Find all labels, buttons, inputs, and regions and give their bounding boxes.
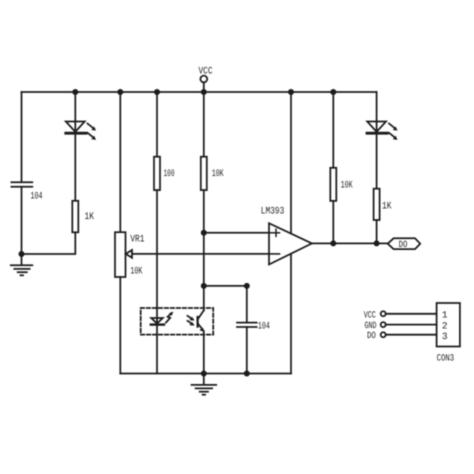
wire: op-amp V- to ground rail xyxy=(290,248,292,374)
svg-text:10K: 10K xyxy=(212,169,224,180)
resistor R3 10K xyxy=(201,157,224,190)
svg-text:100: 100 xyxy=(164,169,175,180)
svg-text:104: 104 xyxy=(258,321,270,332)
svg-text:VR1: VR1 xyxy=(130,235,144,246)
phototransistor Q1 xyxy=(188,310,205,332)
svg-text:VCC: VCC xyxy=(199,67,213,78)
LED D1 xyxy=(66,122,96,140)
capacitor C1 xyxy=(11,182,42,202)
resistor R5 1K xyxy=(374,189,392,220)
wire: rail to R3 xyxy=(203,92,205,157)
junction: collector / C2 node xyxy=(201,283,207,289)
wire: bottom ground rail xyxy=(120,373,291,375)
junction: rail / LED D1 xyxy=(72,89,78,95)
pin DO xyxy=(367,330,437,341)
opto LED D3 xyxy=(151,312,173,325)
wire: rail to VR1 xyxy=(119,92,121,232)
resistor R1 1K xyxy=(72,201,94,233)
capacitor C2 xyxy=(237,321,270,332)
wire: R4 to output xyxy=(332,201,334,244)
svg-text:10K: 10K xyxy=(130,266,142,277)
junction: output / R4 xyxy=(330,240,336,246)
junction: ground rail / emitter xyxy=(201,371,207,377)
wire: node down to phototransistor collector xyxy=(203,286,205,311)
junction: rail / VR1 xyxy=(117,89,123,95)
wire: non-inverting input xyxy=(204,232,269,234)
ground symbol center xyxy=(192,374,217,395)
wire: rail down to C1 xyxy=(21,92,23,182)
svg-text:1K: 1K xyxy=(85,212,95,223)
LED D2 xyxy=(367,122,398,140)
svg-text:DO: DO xyxy=(399,239,408,250)
wire: R5 to output xyxy=(376,220,378,243)
power VCC terminal xyxy=(199,67,213,93)
junction: rail / op-amp V+ xyxy=(288,89,294,95)
wire: VCC top rail xyxy=(22,91,377,93)
terminal DO tag xyxy=(388,238,421,250)
wire: R2 to opto LED xyxy=(156,190,158,325)
wire: emitter to ground rail xyxy=(203,331,205,373)
op-amp U1 LM393 xyxy=(261,207,312,265)
wire: D2 to R5 xyxy=(376,133,378,189)
wire: rail to LED D2 xyxy=(376,92,378,133)
resistor R2 100 xyxy=(154,157,175,190)
wire: R1 bottom to ground node xyxy=(22,232,76,254)
wire: rail to R2 xyxy=(156,92,158,157)
junction: rail / R4 10K xyxy=(330,89,336,95)
wire: VR1 wiper to inverting input xyxy=(132,253,269,255)
wire: divider node to collector node xyxy=(203,233,205,286)
junction: ground rail / C2 xyxy=(244,371,250,377)
wire: VR1 to bottom ground rail xyxy=(119,277,121,374)
wire: collector node to C2 xyxy=(204,286,247,322)
svg-text:1: 1 xyxy=(442,310,448,321)
svg-text:1K: 1K xyxy=(382,201,392,212)
wire: D1 to R1 xyxy=(74,133,76,201)
junction: left ground node xyxy=(19,251,25,257)
wire: op-amp output xyxy=(312,242,388,244)
junction: output / R5 xyxy=(374,240,380,246)
photo-interrupter dashed box xyxy=(141,308,214,335)
svg-text:2: 2 xyxy=(442,320,448,331)
connector CON3 xyxy=(437,303,460,364)
svg-text:10K: 10K xyxy=(341,181,353,192)
wire: op-amp V+ supply from rail xyxy=(290,92,292,240)
junction: divider node xyxy=(201,230,207,236)
wire: opto LED cathode to ground rail xyxy=(156,325,158,374)
wire: C2 to ground rail xyxy=(246,327,248,374)
wire: rail to LED D1 xyxy=(74,92,76,133)
svg-text:104: 104 xyxy=(31,192,43,203)
wire: R3 to divider node xyxy=(203,190,205,233)
svg-text:3: 3 xyxy=(442,331,448,342)
pin GND xyxy=(365,320,437,331)
svg-text:CON3: CON3 xyxy=(437,353,455,364)
resistor R4 10K xyxy=(330,168,352,201)
wire: rail to R4 xyxy=(332,92,334,168)
svg-text:LM393: LM393 xyxy=(261,207,285,218)
junction: rail / R3 10K xyxy=(201,89,207,95)
svg-text:VCC: VCC xyxy=(364,309,376,320)
svg-text:DO: DO xyxy=(367,330,376,341)
junction: rail / R2 100 xyxy=(154,89,160,95)
wire: C1 to ground node xyxy=(21,187,23,254)
pin VCC xyxy=(364,309,437,320)
ground symbol left xyxy=(11,254,33,275)
junction: C2 top xyxy=(244,283,250,289)
potentiometer VR1 xyxy=(115,232,144,277)
